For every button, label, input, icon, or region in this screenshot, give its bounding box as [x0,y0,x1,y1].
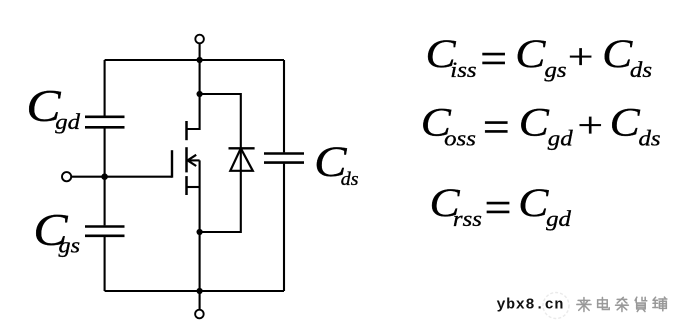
svg-text:oss: oss [444,127,476,151]
svg-text:gs: gs [59,233,81,258]
svg-text:ds: ds [341,169,359,189]
svg-text:gd: gd [546,207,571,231]
svg-text:C: C [602,32,633,76]
svg-text:iss: iss [450,58,476,82]
svg-text:+: + [568,37,594,76]
svg-text:C: C [518,181,549,225]
svg-text:ds: ds [630,58,652,82]
svg-text:gs: gs [545,58,567,82]
svg-text:gd: gd [548,127,573,151]
svg-text:C: C [515,32,546,76]
svg-text:ds: ds [639,127,661,151]
svg-text:=: = [485,183,512,232]
svg-text:=: = [480,34,507,83]
svg-text:=: = [483,103,510,152]
svg-text:+: + [577,106,603,145]
svg-text:rss: rss [453,207,482,231]
svg-text:C: C [519,101,550,145]
svg-text:gd: gd [55,110,80,135]
svg-text:ybx8.cn: ybx8.cn [497,297,565,314]
svg-text:C: C [610,101,641,145]
